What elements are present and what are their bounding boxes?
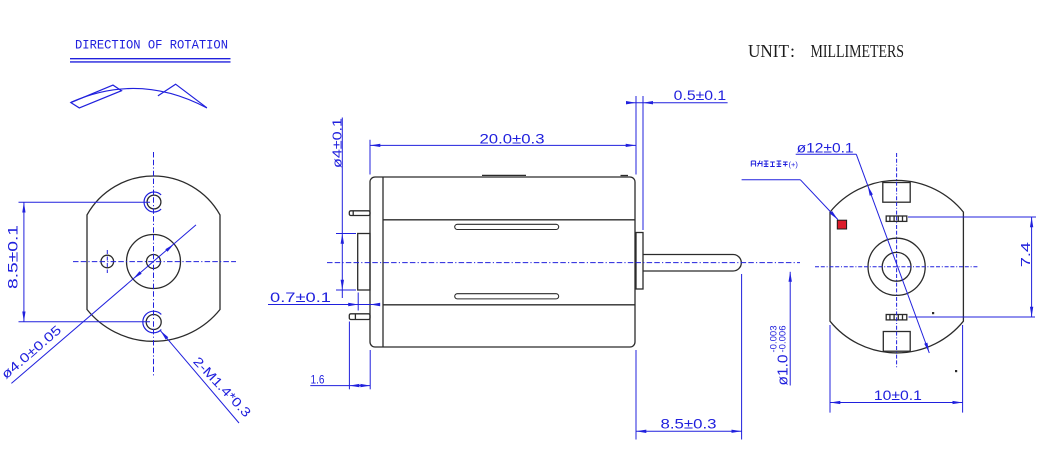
svg-text:ø1.0: ø1.0 xyxy=(775,355,792,386)
dimension 0.7±0.1 xyxy=(268,293,379,390)
front cover flange line xyxy=(382,177,384,347)
screw hole M1.4 top xyxy=(147,195,161,209)
top mounting tab xyxy=(349,211,370,216)
red polarity mark xyxy=(837,220,846,229)
svg-text:2-M1.4*0.3: 2-M1.4*0.3 xyxy=(190,354,254,420)
leader ø12±0.1 xyxy=(796,154,930,353)
rear bearing cap xyxy=(636,233,643,290)
svg-text:ø12±0.1: ø12±0.1 xyxy=(797,140,854,155)
vent slot upper xyxy=(455,224,559,229)
centerline vertical left view xyxy=(153,152,155,377)
svg-text:DIRECTION OF ROTATION: DIRECTION OF ROTATION xyxy=(75,38,228,53)
title double underline xyxy=(70,59,231,62)
stray dot 1 xyxy=(932,312,934,314)
centerline horizontal left view xyxy=(73,261,236,263)
svg-text:ø4±0.1: ø4±0.1 xyxy=(330,118,345,168)
motor body side xyxy=(370,177,635,347)
dimension 0.5±0.1 xyxy=(628,96,727,230)
rear body outline xyxy=(830,180,963,353)
front body outline xyxy=(87,176,220,341)
thread arc bottom xyxy=(143,311,161,333)
svg-text:0.7±0.1: 0.7±0.1 xyxy=(270,290,331,305)
shaft hole xyxy=(147,255,161,269)
leader ø4.0±0.05 xyxy=(11,225,196,384)
leader ø1.0 tolerance xyxy=(789,272,791,386)
label text (CJK simulated) xyxy=(751,161,787,167)
svg-text:10±0.1: 10±0.1 xyxy=(874,388,922,403)
vent slot lower xyxy=(455,294,559,299)
dimension 7.4 xyxy=(908,217,1036,317)
screw hole M1.4 bottom xyxy=(146,315,161,330)
centerline horizontal middle view xyxy=(327,262,800,264)
dimension 1.6 xyxy=(310,322,370,390)
terminal top xyxy=(886,216,907,221)
svg-text:0.5±0.1: 0.5±0.1 xyxy=(674,88,727,103)
dimension ø4±0.1 xyxy=(336,118,356,299)
dimension 20.0±0.3 xyxy=(370,96,636,175)
leader 2-M1.4*0.3 xyxy=(161,331,240,423)
svg-text:-0.006: -0.006 xyxy=(778,326,789,353)
svg-text:UNIT:MILLIMETERS: UNIT:MILLIMETERS xyxy=(748,41,904,61)
brush housing top xyxy=(883,183,910,203)
dimension 8.5±0.1 xyxy=(19,202,151,322)
centerline vertical rear view xyxy=(896,153,898,368)
centerline horizontal rear view xyxy=(815,266,979,268)
label red mark positive pole xyxy=(742,180,838,220)
dimension 10±0.1 xyxy=(830,325,963,413)
thread arc top xyxy=(144,192,161,212)
svg-text:1.6: 1.6 xyxy=(311,375,325,387)
svg-text:8.5±0.3: 8.5±0.3 xyxy=(661,417,717,432)
terminal bottom xyxy=(886,315,907,320)
centerline tick pilot hole xyxy=(106,250,108,273)
bearing hole xyxy=(882,252,911,281)
bearing boss circle xyxy=(868,238,925,295)
shaft xyxy=(643,254,741,271)
svg-text:8.5±0.1: 8.5±0.1 xyxy=(5,225,21,289)
stray dot 2 xyxy=(955,370,957,372)
bottom mounting tab xyxy=(349,314,370,320)
svg-text:7.4: 7.4 xyxy=(1018,242,1033,267)
dimension 8.5±0.3 xyxy=(636,274,742,440)
svg-text:ø4.0±0.05: ø4.0±0.05 xyxy=(0,322,64,382)
center boss circle xyxy=(127,235,181,289)
front boss xyxy=(358,234,370,291)
top edge seam mark xyxy=(482,174,526,176)
svg-text:(+): (+) xyxy=(789,160,799,169)
brush housing bottom xyxy=(883,332,910,352)
case seam lower xyxy=(383,304,635,306)
rotation direction curved arrow xyxy=(71,84,207,108)
title: DIRECTION OF ROTATION xyxy=(75,38,228,53)
case seam upper xyxy=(383,219,635,221)
left pilot hole xyxy=(101,255,114,268)
svg-text:20.0±0.3: 20.0±0.3 xyxy=(480,131,545,146)
